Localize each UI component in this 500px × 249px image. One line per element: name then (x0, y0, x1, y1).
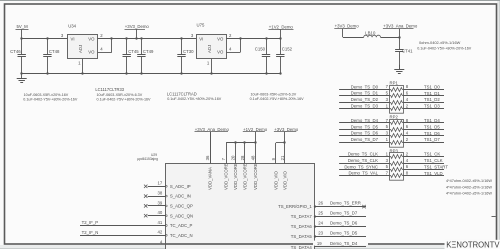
svg-text:TS1_D3: TS1_D3 (424, 104, 440, 109)
svg-text:TS1_D4: TS1_D4 (424, 118, 440, 123)
ground (17, 74, 27, 83)
resistor element RP3d (390, 174, 404, 178)
net +3V3_Demo label (IC) (274, 127, 299, 132)
svg-text:TS1_D0: TS1_D0 (424, 84, 440, 89)
svg-text:LC1117CLTR33: LC1117CLTR33 (95, 87, 124, 92)
wire VANA drop (210, 132, 212, 164)
svg-text:0.1uF-0402-Y5V-+80%-20%-16V: 0.1uF-0402-Y5V-+80%-20%-16V (97, 98, 152, 102)
svg-text:TS_DATA5: TS_DATA5 (291, 234, 313, 239)
pin number 20 (231, 155, 236, 160)
wire +3V3 drop (284, 132, 286, 143)
value label block 2 (95, 87, 151, 102)
svg-text:VO: VO (217, 36, 224, 41)
wire pin 48 stub (255, 143, 257, 164)
svg-text:CT30: CT30 (183, 49, 194, 54)
wire +3V3_Demo drop (136, 29, 138, 38)
svg-text:Demo_TS_D0: Demo_TS_D0 (351, 84, 379, 89)
value label block 1 (23, 93, 78, 102)
pin 19 TS_DATA4 (291, 241, 368, 249)
svg-text:40: 40 (158, 210, 163, 215)
svg-text:10uF-0603-X5R-±20%-6.3V: 10uF-0603-X5R-±20%-6.3V (251, 93, 297, 97)
pin 39 S_ADC_QP (144, 200, 193, 208)
svg-text:VI: VI (71, 36, 75, 41)
svg-text:C150: C150 (255, 47, 266, 52)
wire TS1_CK (404, 152, 445, 157)
svg-text:TS1_D1: TS1_D1 (424, 91, 440, 96)
pin number 48 (250, 155, 255, 160)
svg-text:Demo_TS_D6: Demo_TS_D6 (351, 131, 379, 136)
wire pin 9 stub (275, 143, 277, 164)
svg-text:C152: C152 (282, 47, 293, 52)
svg-text:24: 24 (318, 221, 323, 226)
junction (283, 141, 285, 143)
svg-text:ADJ: ADJ (207, 45, 212, 53)
svg-text:TS1_D2: TS1_D2 (424, 97, 440, 102)
wire 5V bus (22, 38, 68, 40)
svg-text:0.1uF-0402-Y5V-+80%-20%-16V: 0.1uF-0402-Y5V-+80%-20%-16V (23, 98, 78, 102)
svg-text:U34: U34 (68, 23, 76, 28)
wire Demo_TS_D5 (339, 124, 389, 129)
svg-text:VDD_VCORE: VDD_VCORE (243, 163, 248, 190)
svg-text:0.1uF-0402-Y5V-+80%-20%-16V: 0.1uF-0402-Y5V-+80%-20%-16V (417, 46, 472, 50)
pin name VDD_VCORE (233, 163, 238, 190)
capacitor C150 (255, 39, 270, 74)
pin name VDD_VIO (273, 170, 278, 190)
resistor network RP3 (390, 148, 404, 180)
net +3V3_Ana_Demo label (383, 24, 418, 29)
wire U75 ADJ to ground (211, 59, 213, 74)
capacitor CT45 (123, 39, 140, 74)
pin number 28 (240, 155, 245, 160)
svg-text:TS1_CK: TS1_CK (424, 152, 440, 157)
resistor element RP2b (390, 128, 404, 132)
svg-text:4*47ohm-0402-±5%-1/16W: 4*47ohm-0402-±5%-1/16W (446, 192, 492, 196)
resistor element RP1d (390, 107, 404, 111)
value label 0.1uF (417, 46, 472, 50)
svg-text:39: 39 (158, 200, 163, 205)
pin number 9 (271, 157, 276, 160)
resistor element RP3b (390, 162, 404, 166)
pin name VDD_VCORE (224, 163, 229, 190)
wire TS1_D5 (404, 124, 445, 129)
wire Demo_TS_D0 (339, 84, 389, 89)
svg-text:0ohm-0402-±5%-1/16W: 0ohm-0402-±5%-1/16W (419, 40, 461, 45)
svg-text:+3V3_Ana_Demo: +3V3_Ana_Demo (383, 24, 418, 29)
wire +3V3 bus (276, 142, 285, 144)
svg-text:U75: U75 (197, 23, 205, 28)
wire TS1_VLD (404, 171, 445, 176)
resistor element RP3c (390, 168, 404, 172)
pin number 21 (280, 155, 285, 160)
svg-text:10uF-0603-X5R-±20%-6.3V: 10uF-0603-X5R-±20%-6.3V (97, 93, 143, 97)
svg-text:36: 36 (205, 155, 210, 160)
wire Demo_TS_CLK (339, 152, 389, 157)
svg-text:Demo_TS_D5: Demo_TS_D5 (351, 124, 379, 129)
svg-text:TS_DATA7: TS_DATA7 (291, 214, 313, 219)
net +1V2_Demo label (269, 25, 294, 30)
capacitor CT41 (395, 37, 413, 69)
pin 38 S_ADC_IN (144, 191, 191, 199)
svg-text:µpd61153ajng: µpd61153ajng (137, 157, 158, 161)
pin 42 TC_ADC_N (80, 230, 193, 238)
capacitor CT48 (43, 39, 60, 74)
svg-text:RP2: RP2 (390, 115, 399, 120)
svg-text:0.1uF-0402-Y5V-+80%-20%-16V: 0.1uF-0402-Y5V-+80%-20%-16V (167, 97, 222, 101)
svg-text:VDD_VCORE: VDD_VCORE (233, 163, 238, 190)
junction (110, 37, 182, 39)
svg-text:Demo_TS_D3: Demo_TS_D3 (351, 103, 379, 108)
wire pin 28 stub (244, 143, 246, 164)
svg-text:ADJ: ADJ (78, 45, 83, 53)
svg-text:28: 28 (240, 155, 245, 160)
svg-text:+1V2_Demo: +1V2_Demo (269, 25, 294, 30)
wire Demo_TS_VAL (339, 171, 389, 176)
wire TS1_START (404, 164, 449, 169)
svg-text:S_ADC_QN: S_ADC_QN (170, 213, 193, 218)
svg-text:Demo_TS_D4: Demo_TS_D4 (330, 241, 358, 246)
svg-text:TS1_CLK: TS1_CLK (424, 158, 443, 163)
pin 43 partial (160, 240, 163, 245)
svg-text:25: 25 (318, 211, 323, 216)
svg-text:Demo_TS_D6: Demo_TS_D6 (330, 221, 358, 226)
wire pin 36 stub (210, 132, 212, 164)
junction (20, 37, 48, 39)
svg-text:TS_DATA6: TS_DATA6 (291, 224, 313, 229)
svg-text:TS_ERR/GPIO_1: TS_ERR/GPIO_1 (278, 204, 312, 209)
svg-text:CT46: CT46 (10, 49, 21, 54)
value label block 3 (167, 92, 222, 102)
junction (20, 72, 281, 74)
ground (394, 65, 404, 74)
value label block 4 (250, 93, 305, 101)
svg-text:Demo_TS_CLK: Demo_TS_CLK (348, 152, 378, 157)
wire TS1_CLK (404, 158, 445, 164)
value label 0ohm (419, 40, 461, 45)
svg-text:VO: VO (217, 50, 224, 55)
svg-text:Demo_TS_CLK: Demo_TS_CLK (348, 158, 378, 163)
svg-text:42: 42 (158, 230, 163, 235)
svg-text:VDD_VCORE: VDD_VCORE (253, 163, 258, 190)
svg-text:38: 38 (158, 191, 163, 196)
net +1V2_Demo label (IC) (243, 127, 268, 132)
svg-text:Demo_TS_D4: Demo_TS_D4 (351, 118, 379, 123)
wire Demo_TS_D2 (339, 97, 389, 103)
net +3V3_Ana_Demo label (IC) (195, 127, 230, 132)
resistor element RP3a (390, 155, 404, 159)
svg-text:20: 20 (231, 155, 236, 160)
svg-text:TS1_VLD: TS1_VLD (424, 171, 443, 176)
junction (239, 37, 281, 39)
svg-text:Demo_TS_D7: Demo_TS_D7 (330, 211, 358, 216)
svg-text:VDD_VANA: VDD_VANA (208, 167, 213, 190)
wire U34 ADJ to ground (82, 59, 84, 74)
pin number 7 (221, 157, 226, 160)
wire Demo_TS_SYNC (339, 164, 389, 169)
wire U34 VO pin4 loop (98, 39, 112, 53)
net +3V3_Demo label (right) (334, 24, 359, 29)
svg-text:48: 48 (250, 155, 255, 160)
svg-text:Demo_TS_D2: Demo_TS_D2 (351, 97, 379, 102)
pin 25 TS_DATA7 (291, 211, 366, 220)
resistor element RP2a (390, 121, 404, 125)
wire Demo_TS_D1 (339, 91, 389, 96)
wire bead to junction (381, 37, 400, 39)
pin name VDD_VANA (208, 167, 213, 190)
svg-text:TS_DATA4: TS_DATA4 (291, 245, 313, 249)
svg-text:S_ADC_IP: S_ADC_IP (170, 184, 191, 189)
pin number 36 (205, 155, 210, 160)
svg-text:CT48: CT48 (49, 49, 60, 54)
svg-text:VI: VI (199, 36, 203, 41)
resistor element RP2d (390, 141, 404, 145)
wire Demo_TS_D7 (339, 137, 389, 143)
svg-text:VDD_VCORE: VDD_VCORE (224, 163, 229, 190)
svg-text:+3V3_Demo: +3V3_Demo (335, 24, 360, 29)
svg-text:VDD_VIO: VDD_VIO (282, 170, 287, 190)
junction (398, 36, 400, 38)
resistor network RP2 (390, 115, 404, 148)
wire +1V2 bus (226, 142, 255, 144)
pin name VDD_VIO (282, 170, 287, 190)
pin 23 TS_DATA5 (291, 231, 366, 240)
net +3V3_Demo label (125, 24, 150, 29)
wire Demo_TS_D3 (339, 103, 389, 108)
svg-text:T2_IF_P: T2_IF_P (82, 220, 99, 225)
resistor element RP2c (390, 134, 404, 138)
svg-text:17: 17 (158, 181, 163, 186)
svg-text:4*47ohm-0402-±5%-1/16W: 4*47ohm-0402-±5%-1/16W (446, 179, 492, 183)
svg-text:CT49: CT49 (143, 49, 154, 54)
wire TS1_D7 (404, 137, 445, 143)
svg-text:T2_IF_N: T2_IF_N (82, 230, 99, 235)
svg-text:TS1_D7: TS1_D7 (424, 137, 440, 142)
svg-text:4*47ohm-0402-±5%-1/16W: 4*47ohm-0402-±5%-1/16W (446, 185, 492, 189)
wire pin 20 stub (235, 143, 237, 164)
svg-text:RP1: RP1 (390, 81, 399, 86)
svg-text:41: 41 (158, 220, 163, 225)
wire TS1_D3 (404, 103, 445, 108)
wire U75 VO pin2 (226, 38, 280, 40)
svg-text:TS1_D5: TS1_D5 (424, 124, 440, 129)
wire TS1_D2 (404, 97, 445, 103)
junction (234, 141, 256, 143)
svg-text:VO: VO (88, 36, 95, 41)
wire Demo_TS_CLK (339, 158, 389, 164)
frame tick (492, 216, 496, 218)
demodulator IC U29 (137, 153, 314, 249)
svg-text:23: 23 (318, 231, 323, 236)
capacitor CT46 (10, 39, 26, 74)
capacitor CT30 (177, 39, 194, 74)
svg-text:KΞNOTRONTV: KΞNOTRONTV (446, 240, 500, 249)
svg-text:5V_M: 5V_M (17, 24, 29, 29)
svg-text:TC_ADC_P: TC_ADC_P (170, 223, 193, 228)
svg-text:+3V3_Demo: +3V3_Demo (125, 24, 150, 29)
svg-text:CT45: CT45 (128, 49, 139, 54)
svg-text:VO: VO (88, 50, 95, 55)
svg-text:TS1_D6: TS1_D6 (424, 131, 440, 136)
wire TS1_D4 (404, 118, 445, 123)
pin name VDD_VCORE (253, 163, 258, 190)
pin 41 TC_ADC_P (80, 220, 192, 228)
pin 24 TS_DATA6 (291, 221, 366, 230)
svg-text:26: 26 (318, 201, 323, 206)
svg-text:VDD_VIO: VDD_VIO (273, 170, 278, 190)
svg-text:LC1117CLTRAD: LC1117CLTRAD (167, 92, 197, 97)
wire TS1_D6 (404, 131, 445, 136)
wire pin 7 stub (226, 143, 228, 164)
svg-text:0.1uF-0402-Y5V-+80%-20%-16V: 0.1uF-0402-Y5V-+80%-20%-16V (250, 97, 305, 101)
svg-text:Demo_TS_D5: Demo_TS_D5 (330, 231, 358, 236)
resistor element RP1c (390, 101, 404, 105)
svg-text:Demo_TS_ERR: Demo_TS_ERR (330, 201, 361, 206)
wire +1V2_Demo drop (280, 30, 282, 39)
watermark KENOTRONTV (445, 240, 500, 249)
wire U34 VO pin2 (98, 38, 196, 40)
pin 40 S_ADC_QN (144, 210, 193, 218)
op-amp U75 (LDO regulator) (191, 23, 232, 66)
wire +3V3_Demo to bead (343, 29, 364, 38)
pin 17 S_ADC_IP (144, 181, 191, 189)
svg-text:TS1_START: TS1_START (424, 164, 448, 169)
capacitor C152 (276, 39, 293, 74)
svg-text:S_ADC_QP: S_ADC_QP (170, 204, 193, 209)
net 5V_M label (16, 24, 29, 29)
svg-text:Demo_TS_D1: Demo_TS_D1 (351, 91, 379, 96)
capacitor CT49 (137, 39, 154, 74)
svg-text:Demo_TS_SYNC: Demo_TS_SYNC (344, 164, 378, 169)
resistor element RP1a (390, 88, 404, 92)
svg-text:TC_ADC_N: TC_ADC_N (170, 233, 193, 238)
wire +1V2 drop (255, 132, 257, 143)
resistor element RP1b (390, 94, 404, 98)
svg-text:CT41: CT41 (402, 48, 413, 53)
wire TS1_D0 (404, 84, 445, 89)
value label 4*47ohm x3 (446, 179, 492, 195)
op-amp U34 (LDO regulator) (61, 23, 103, 65)
wire 5V_M drop (21, 29, 23, 38)
svg-text:21: 21 (280, 155, 285, 160)
svg-text:S_ADC_IN: S_ADC_IN (170, 194, 191, 199)
wire pin 21 stub (284, 143, 286, 164)
wire ground bus (22, 73, 281, 75)
wire Demo_TS_D6 (339, 131, 389, 136)
net T2_IF_P label (82, 220, 99, 225)
resistor network RP1 (390, 81, 404, 114)
svg-text:Demo_TS_D7: Demo_TS_D7 (351, 137, 379, 142)
pin 26 TS_ERR/GPIO_1 (278, 201, 366, 210)
inductor LB10 (ferrite bead) (364, 31, 381, 38)
wire TS1_D1 (404, 91, 445, 96)
svg-text:10uF-0603-X5R-±20%-16V: 10uF-0603-X5R-±20%-16V (24, 93, 69, 97)
svg-text:19: 19 (317, 241, 322, 246)
wire +3V3_Ana_Demo drop (399, 29, 401, 38)
pin name VDD_VCORE (243, 163, 248, 190)
svg-text:Demo_TS_VAL: Demo_TS_VAL (348, 171, 378, 176)
wire U75 VO pin4 loop (226, 39, 240, 53)
wire Demo_TS_D4 (339, 118, 389, 123)
net T2_IF_N label (82, 230, 99, 235)
